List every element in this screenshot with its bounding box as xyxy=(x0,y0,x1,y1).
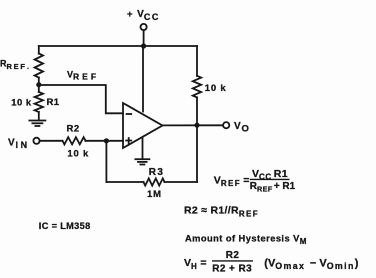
svg-text:R3: R3 xyxy=(149,167,165,178)
svg-text:VH=: VH= xyxy=(184,257,207,271)
svg-text:+VCC: +VCC xyxy=(127,9,160,22)
svg-text:IC = LM358: IC = LM358 xyxy=(39,221,91,231)
svg-text:10 k: 10 k xyxy=(11,97,32,108)
svg-text:VREF: VREF xyxy=(67,69,99,81)
svg-text:R2 ≈ R1//RREF: R2 ≈ R1//RREF xyxy=(184,204,259,218)
svg-text:RREF.: RREF. xyxy=(0,59,29,71)
svg-text:R2: R2 xyxy=(226,250,240,261)
svg-text:VIN: VIN xyxy=(8,138,30,150)
svg-text:R2 + R3: R2 + R3 xyxy=(212,263,252,274)
svg-text:(VOmax− VOmin): (VOmax− VOmin) xyxy=(264,257,358,271)
svg-text:1M: 1M xyxy=(147,189,162,200)
svg-text:R1: R1 xyxy=(47,97,60,108)
svg-text:Amount of Hysteresis VM: Amount of Hysteresis VM xyxy=(185,234,307,247)
svg-text:10 k: 10 k xyxy=(67,148,89,159)
svg-text:VREF=: VREF= xyxy=(214,175,250,189)
svg-text:10 k: 10 k xyxy=(205,83,227,94)
svg-text:R2: R2 xyxy=(67,124,80,135)
svg-text:VO: VO xyxy=(234,121,249,135)
svg-text:RREF+ R1: RREF+ R1 xyxy=(250,181,296,194)
